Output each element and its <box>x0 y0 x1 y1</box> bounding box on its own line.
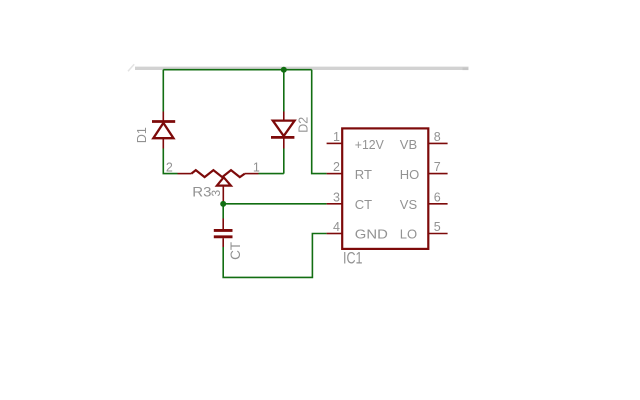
wire R3.1 to D2 <box>259 173 284 175</box>
wire junction to pin3 <box>223 203 326 205</box>
svg-text:8: 8 <box>434 130 441 144</box>
wire D1 top <box>162 70 164 112</box>
svg-text:D2: D2 <box>296 117 310 133</box>
pin IC1.4 lead <box>327 233 343 235</box>
rail break mark <box>128 64 134 71</box>
svg-text:2: 2 <box>166 161 173 175</box>
svg-text:6: 6 <box>434 190 441 204</box>
pin IC1.5 lead <box>428 233 447 235</box>
svg-text:1: 1 <box>253 161 260 175</box>
svg-text:5: 5 <box>434 220 441 234</box>
wire D2 bottom <box>283 149 285 174</box>
svg-text:2: 2 <box>333 160 340 174</box>
svg-text:VB: VB <box>400 137 417 152</box>
svg-text:LO: LO <box>400 227 417 242</box>
wire bus to pin2 <box>312 70 327 174</box>
pin D2 anode lead <box>283 112 285 121</box>
svg-text:4: 4 <box>333 220 340 234</box>
pin CT bottom lead <box>222 238 224 247</box>
svg-text:CT: CT <box>228 242 243 260</box>
svg-text:+12V: +12V <box>355 137 384 152</box>
wire top horizontal <box>163 69 311 71</box>
capacitor CT <box>214 230 233 236</box>
junction dot bus/D2 <box>281 67 287 73</box>
svg-text:IC1: IC1 <box>343 249 363 267</box>
svg-text:D1: D1 <box>135 127 149 143</box>
svg-text:CT: CT <box>355 197 372 212</box>
wire D2 top <box>283 70 285 112</box>
svg-text:3: 3 <box>333 190 340 204</box>
potentiometer R3 body <box>191 170 244 177</box>
pin D1 anode lead <box>162 138 164 148</box>
wire wiper to junction <box>222 202 224 204</box>
svg-text:7: 7 <box>434 160 441 174</box>
pin D1 cathode lead <box>162 112 164 121</box>
R3 wiper arrow <box>217 177 231 202</box>
pin R3.1 lead <box>245 173 259 175</box>
pin IC1.1 lead <box>327 142 343 144</box>
diode D1 <box>152 122 175 139</box>
pin R3.2 lead <box>178 173 192 175</box>
pin IC1.7 lead <box>428 173 447 175</box>
svg-text:GND: GND <box>355 227 388 242</box>
op-amp IC1 box <box>342 128 428 249</box>
+12V supply rail (gray bus) <box>135 67 469 70</box>
pin IC1.3 lead <box>327 203 343 205</box>
pin IC1.6 lead <box>428 203 447 205</box>
rail end cap <box>463 68 469 71</box>
wire junction down <box>222 204 224 219</box>
junction dot R3/CT/pin3 <box>220 201 226 207</box>
svg-text:VS: VS <box>400 197 418 212</box>
svg-text:3: 3 <box>209 190 223 197</box>
diode D2 <box>271 121 295 138</box>
wire cap bottom to pin4 <box>223 234 326 278</box>
wire D1 bottom <box>163 149 177 174</box>
svg-text:RT: RT <box>355 167 372 182</box>
pin IC1.8 lead <box>428 142 447 144</box>
pin D2 cathode lead <box>283 138 285 149</box>
svg-text:1: 1 <box>333 130 340 144</box>
pin IC1.2 lead <box>327 173 343 175</box>
svg-text:HO: HO <box>400 167 420 182</box>
pin CT top lead <box>222 219 224 230</box>
